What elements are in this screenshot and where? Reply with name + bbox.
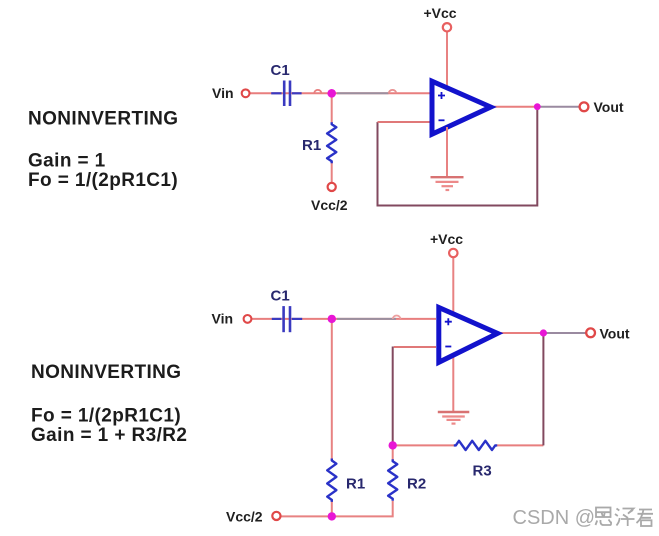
- op-amp U1 (top): [432, 81, 491, 134]
- watermark glyph Ze: [615, 509, 635, 527]
- wire junction to R1 (top): [331, 93, 333, 123]
- wire junction down to R1 (bottom): [331, 319, 333, 459]
- node output junction (bottom): [540, 329, 547, 336]
- svg-text:Fo = 1/(2pR1C1): Fo = 1/(2pR1C1): [28, 170, 178, 191]
- wire node to R3 (bottom): [393, 444, 455, 446]
- wire op-amp output to junction (top): [493, 106, 537, 108]
- op-amp U2 (bottom): [439, 308, 498, 363]
- wire junction to Vout terminal (top): [537, 106, 579, 108]
- terminal +Vcc (top): [443, 23, 451, 31]
- wire hop arc left (top): [314, 90, 321, 93]
- svg-text:+Vcc: +Vcc: [430, 231, 463, 247]
- terminal +Vcc (bottom): [449, 249, 457, 257]
- svg-text:Vcc/2: Vcc/2: [226, 509, 263, 525]
- terminal Vcc/2 (top): [328, 183, 336, 191]
- wire R1 to Vcc/2 terminal (top): [331, 162, 333, 183]
- svg-text:CSDN @: CSDN @: [513, 507, 596, 529]
- svg-text:Gain = 1 + R3/R2: Gain = 1 + R3/R2: [31, 425, 187, 446]
- terminal Vout (top): [580, 102, 589, 111]
- node output junction (top): [534, 103, 541, 110]
- svg-text:+Vcc: +Vcc: [424, 5, 457, 21]
- svg-text:Vin: Vin: [212, 311, 234, 327]
- wire output vertical feedback (bottom): [542, 333, 544, 445]
- capacitor C1 (top): [271, 81, 301, 107]
- node input junction (top): [327, 89, 336, 98]
- svg-text:R1: R1: [346, 476, 365, 493]
- terminal Vin (top): [242, 89, 250, 97]
- terminal Vcc/2 (bottom): [272, 512, 280, 520]
- wire R3 to output vertical (bottom): [497, 444, 544, 446]
- wire Vin to op-amp + input (bottom): [252, 318, 437, 320]
- wire junction to Vout terminal (bottom): [543, 332, 586, 334]
- wire hop arc right (top): [389, 90, 397, 93]
- wire inverting input to node (bottom): [393, 347, 436, 446]
- wire op-amp output to junction (bottom): [499, 332, 543, 334]
- svg-text:Fo = 1/(2pR1C1): Fo = 1/(2pR1C1): [31, 406, 181, 427]
- svg-text:R3: R3: [473, 463, 492, 480]
- svg-text:Vcc/2: Vcc/2: [311, 197, 348, 213]
- node input junction (bottom): [328, 315, 336, 323]
- svg-text:Vout: Vout: [600, 326, 630, 342]
- wire hop arc (bottom): [393, 316, 401, 319]
- resistor R1 (top): [327, 122, 336, 163]
- svg-text:C1: C1: [271, 288, 290, 305]
- node Vcc/2 rail junction (bottom): [328, 512, 336, 520]
- wire Vcc/2 rail (bottom): [281, 501, 393, 517]
- node R2/R3 junction (bottom): [389, 441, 397, 449]
- terminal Vin (bottom): [244, 315, 252, 323]
- capacitor C1 (bottom): [272, 306, 302, 332]
- terminal Vout (bottom): [586, 328, 595, 337]
- svg-text:R1: R1: [302, 137, 321, 154]
- resistor R2 (bottom): [388, 459, 397, 500]
- resistor R3 (bottom): [454, 441, 497, 450]
- svg-text:NONINVERTING: NONINVERTING: [31, 362, 181, 383]
- wire R1 to bottom rail (bottom): [331, 501, 333, 516]
- wire +Vcc vertical (top): [446, 32, 448, 177]
- wire R2 top to node (bottom): [392, 445, 394, 459]
- ground (bottom): [438, 412, 470, 424]
- watermark glyph Jun: [637, 510, 654, 527]
- svg-text:Gain = 1: Gain = 1: [28, 151, 106, 172]
- svg-text:Vout: Vout: [594, 99, 624, 115]
- svg-text:C1: C1: [271, 62, 290, 79]
- svg-text:Vin: Vin: [212, 85, 234, 101]
- svg-text:NONINVERTING: NONINVERTING: [28, 109, 178, 130]
- wire inverting input horizontal (top): [378, 121, 430, 123]
- wire +Vcc vertical (bottom): [452, 257, 454, 411]
- wire feedback loop output to inverting input (top): [378, 107, 538, 206]
- svg-text:R2: R2: [407, 476, 426, 493]
- watermark glyph En: [596, 508, 612, 526]
- resistor R1 (bottom): [327, 459, 336, 502]
- ground (top): [431, 127, 464, 190]
- wire Vin to op-amp + input (top): [250, 92, 430, 94]
